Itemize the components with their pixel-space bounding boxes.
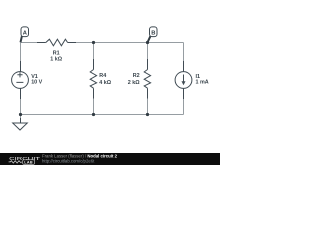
svg-text:4 kΩ: 4 kΩ: [99, 80, 111, 86]
svg-text:R2: R2: [133, 73, 140, 79]
svg-text:R4: R4: [99, 73, 106, 79]
svg-text:LAB: LAB: [24, 160, 33, 164]
svg-text:1 kΩ: 1 kΩ: [50, 57, 62, 63]
svg-text:http://circuitlab.com/c/p2e6t: http://circuitlab.com/c/p2e6t: [42, 159, 95, 164]
svg-text:2 kΩ: 2 kΩ: [128, 80, 140, 86]
svg-text:B: B: [151, 30, 155, 36]
svg-text:1 mA: 1 mA: [196, 80, 209, 86]
svg-text:10 V: 10 V: [31, 80, 42, 86]
